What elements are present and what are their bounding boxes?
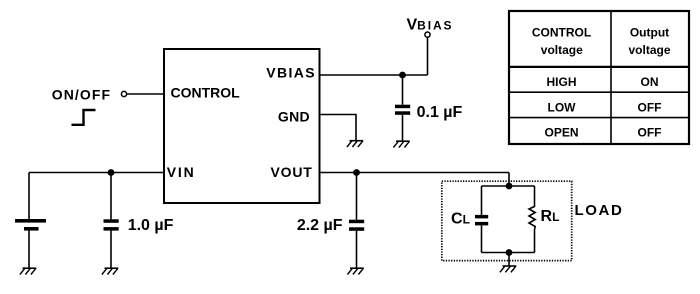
wire load top rail xyxy=(482,185,535,187)
wire GND pin xyxy=(320,115,357,141)
wire VIN rail xyxy=(29,172,164,174)
node VBIAS label xyxy=(407,17,454,34)
wire VOUT rail xyxy=(320,172,510,174)
load dashed box xyxy=(442,181,572,260)
ground (C3) xyxy=(347,268,363,274)
wire load to ground xyxy=(508,253,510,267)
table row HIGH / ON xyxy=(547,75,659,89)
capacitor C3 2.2 uF xyxy=(349,173,364,269)
svg-text:OFF: OFF xyxy=(638,126,662,140)
wire load bottom rail xyxy=(482,252,535,254)
table header CONTROL voltage xyxy=(532,25,591,57)
label RL xyxy=(541,208,560,225)
wire VOUT drop into load xyxy=(508,173,510,187)
ground (battery) xyxy=(20,268,36,274)
junction load top xyxy=(506,183,513,190)
svg-text:ON/OFF: ON/OFF xyxy=(52,87,111,103)
capacitor C1 0.1 uF xyxy=(395,75,410,141)
svg-text:GND: GND xyxy=(278,108,310,124)
svg-text:VBIAS: VBIAS xyxy=(407,17,454,34)
ground (GND pin) xyxy=(347,141,363,147)
step waveform symbol xyxy=(72,110,96,125)
svg-text:1.0 µF: 1.0 µF xyxy=(128,217,174,234)
wire ON/OFF to CONTROL pin xyxy=(127,93,164,95)
terminal circle ON/OFF xyxy=(121,91,126,96)
ground (load) xyxy=(500,266,516,272)
svg-text:RL: RL xyxy=(541,208,560,225)
junction load bottom xyxy=(506,249,513,256)
capacitor CL xyxy=(475,186,488,253)
svg-text:CL: CL xyxy=(451,211,470,228)
svg-text:LOW: LOW xyxy=(548,100,577,114)
table: truth table xyxy=(509,11,689,144)
terminal circle VBIAS xyxy=(425,32,430,37)
svg-text:voltage: voltage xyxy=(541,43,583,57)
svg-text:LOAD: LOAD xyxy=(575,202,624,219)
svg-text:OPEN: OPEN xyxy=(544,126,578,140)
capacitor C2 1.0 uF xyxy=(104,173,119,269)
svg-text:Output: Output xyxy=(630,25,669,39)
svg-text:VIN: VIN xyxy=(167,164,196,180)
svg-text:HIGH: HIGH xyxy=(547,75,577,89)
wire riser to VBIAS terminal xyxy=(427,37,429,75)
svg-text:VOUT: VOUT xyxy=(271,164,313,180)
battery B1 xyxy=(15,173,46,269)
junction VOUT/C3 xyxy=(353,169,360,176)
junction VIN/C2 xyxy=(108,169,115,176)
resistor RL xyxy=(529,186,535,253)
ground (C2) xyxy=(102,268,118,274)
junction VBIAS/C1 xyxy=(399,72,406,79)
svg-text:OFF: OFF xyxy=(638,100,662,114)
table row OPEN / OFF xyxy=(544,126,661,140)
op-amp U1 regulator box xyxy=(164,49,320,203)
svg-text:VBIAS: VBIAS xyxy=(266,64,316,80)
svg-text:ON: ON xyxy=(641,75,659,89)
svg-text:2.2 µF: 2.2 µF xyxy=(297,217,343,234)
svg-text:voltage: voltage xyxy=(628,43,670,57)
ground (under C1) xyxy=(393,141,409,147)
svg-text:CONTROL: CONTROL xyxy=(171,85,241,101)
table header Output voltage xyxy=(628,25,670,57)
table row LOW / OFF xyxy=(548,100,662,114)
label CL xyxy=(451,211,470,228)
svg-text:CONTROL: CONTROL xyxy=(532,25,591,39)
svg-text:0.1 µF: 0.1 µF xyxy=(417,104,463,121)
wire VBIAS pin to riser xyxy=(320,74,428,76)
